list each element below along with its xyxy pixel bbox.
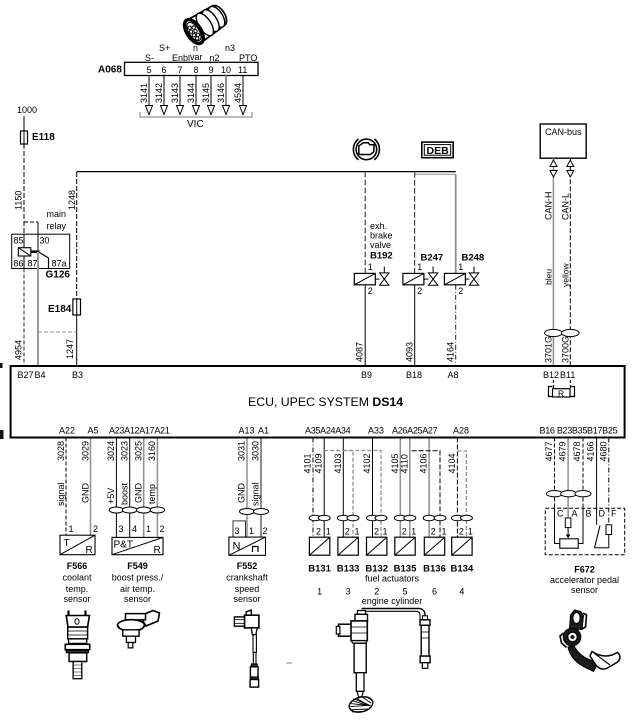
svg-text:86: 86: [14, 259, 24, 269]
svg-text:P&T: P&T: [114, 540, 133, 551]
svg-text:F549: F549: [127, 561, 148, 571]
svg-text:PTO: PTO: [239, 53, 257, 63]
svg-text:3024: 3024: [106, 441, 116, 461]
svg-text:6: 6: [162, 65, 167, 75]
svg-text:87: 87: [28, 259, 38, 269]
svg-text:signal: signal: [56, 482, 66, 506]
svg-text:2: 2: [263, 526, 268, 536]
svg-text:S-: S-: [145, 53, 154, 63]
svg-text:1: 1: [146, 524, 151, 534]
svg-text:boost press./: boost press./: [112, 573, 164, 583]
svg-text:A1: A1: [258, 426, 269, 436]
svg-text:A13: A13: [239, 426, 255, 436]
svg-text:B16 B23B35B17B25: B16 B23B35B17B25: [540, 426, 618, 436]
svg-text:Enbl: Enbl: [172, 53, 190, 63]
svg-text:1: 1: [411, 527, 416, 537]
svg-text:4: 4: [132, 524, 137, 534]
svg-text:5: 5: [147, 65, 152, 75]
svg-text:coolant: coolant: [62, 573, 92, 583]
svg-text:GND: GND: [134, 483, 144, 504]
svg-text:A26A25A27: A26A25A27: [392, 426, 438, 436]
svg-text:4101: 4101: [303, 453, 313, 473]
svg-text:CAN-L: CAN-L: [561, 193, 571, 220]
svg-text:crankshaft: crankshaft: [226, 573, 268, 583]
svg-text:B11: B11: [560, 370, 575, 380]
svg-text:temp.: temp.: [66, 584, 89, 594]
svg-text:2: 2: [93, 524, 98, 534]
svg-text:1: 1: [468, 527, 473, 537]
svg-text:1: 1: [368, 262, 373, 272]
svg-text:4102: 4102: [362, 453, 372, 473]
svg-text:relay: relay: [47, 221, 67, 231]
svg-text:30: 30: [40, 236, 50, 246]
svg-text:3023: 3023: [120, 441, 130, 461]
svg-text:4109: 4109: [314, 453, 324, 473]
svg-text:3025: 3025: [134, 441, 144, 461]
svg-text:4: 4: [459, 587, 464, 597]
svg-text:A5: A5: [88, 426, 99, 436]
svg-text:2: 2: [459, 527, 464, 537]
svg-text:1000: 1000: [17, 105, 37, 115]
svg-text:engine cylinder: engine cylinder: [362, 596, 423, 606]
svg-text:4106: 4106: [419, 453, 429, 473]
svg-text:3031: 3031: [237, 441, 247, 461]
svg-text:1247: 1247: [65, 339, 75, 359]
svg-text:3143: 3143: [170, 83, 180, 103]
svg-text:B133: B133: [337, 564, 360, 575]
svg-text:R: R: [86, 545, 93, 556]
svg-text:2: 2: [368, 286, 373, 296]
svg-text:2: 2: [374, 527, 379, 537]
svg-text:A28: A28: [453, 426, 469, 436]
svg-text:fuel actuators: fuel actuators: [365, 574, 420, 584]
svg-text:speed: speed: [235, 584, 260, 594]
svg-text:10: 10: [221, 65, 231, 75]
svg-text:3141: 3141: [139, 83, 149, 103]
svg-text:CAN-bus: CAN-bus: [545, 127, 582, 137]
svg-text:G126: G126: [46, 270, 71, 281]
svg-text:1: 1: [355, 527, 360, 537]
svg-text:A: A: [572, 509, 578, 519]
svg-text:accelerator pedal: accelerator pedal: [550, 575, 619, 585]
svg-text:1: 1: [326, 527, 331, 537]
svg-text:3142: 3142: [154, 83, 164, 103]
svg-text:3146: 3146: [216, 83, 226, 103]
svg-text:1: 1: [383, 527, 388, 537]
svg-text:85: 85: [14, 236, 24, 246]
svg-text:A33: A33: [368, 426, 384, 436]
svg-text:B4: B4: [35, 370, 46, 380]
svg-text:B131: B131: [308, 564, 331, 575]
svg-text:4680: 4680: [598, 441, 608, 461]
svg-text:sensor: sensor: [233, 594, 260, 604]
svg-text:4954: 4954: [14, 340, 24, 360]
svg-text:3: 3: [235, 526, 240, 536]
svg-text:A23A12A17A21: A23A12A17A21: [109, 426, 170, 436]
svg-text:GND: GND: [81, 483, 91, 504]
svg-text:A35A24A34: A35A24A34: [305, 426, 351, 436]
svg-text:B: B: [586, 509, 592, 519]
svg-text:2: 2: [374, 587, 379, 597]
svg-text:valve: valve: [370, 240, 391, 250]
svg-text:main: main: [47, 209, 67, 219]
svg-text:ECU, UPEC SYSTEM DS14: ECU, UPEC SYSTEM DS14: [248, 395, 403, 409]
svg-text:R: R: [558, 388, 564, 398]
svg-text:E184: E184: [48, 304, 72, 315]
svg-text:4104: 4104: [447, 453, 457, 473]
svg-text:11: 11: [238, 65, 247, 75]
svg-text:var: var: [190, 52, 203, 62]
svg-text:bleu: bleu: [544, 269, 554, 285]
svg-text:3: 3: [346, 587, 351, 597]
svg-text:2: 2: [160, 524, 165, 534]
svg-text:4105: 4105: [390, 453, 400, 473]
svg-text:B192: B192: [370, 250, 393, 261]
svg-text:5: 5: [402, 587, 407, 597]
svg-text:3: 3: [119, 524, 124, 534]
svg-text:4103: 4103: [333, 453, 343, 473]
svg-text:E118: E118: [32, 132, 55, 143]
svg-text:GND: GND: [237, 483, 247, 504]
svg-text:3030: 3030: [251, 441, 261, 461]
svg-text:4677: 4677: [544, 441, 554, 461]
svg-text:exh.: exh.: [370, 221, 387, 231]
svg-text:S+: S+: [159, 43, 170, 53]
svg-text:3028: 3028: [56, 441, 66, 461]
svg-text:+5V: +5V: [106, 488, 116, 504]
svg-text:3144: 3144: [186, 83, 196, 103]
svg-text:3700G: 3700G: [561, 336, 571, 363]
svg-text:B3: B3: [72, 370, 83, 380]
svg-text:1150: 1150: [14, 191, 24, 210]
svg-text:B247: B247: [421, 253, 444, 264]
svg-text:1: 1: [442, 527, 447, 537]
svg-text:N: N: [233, 541, 241, 553]
svg-text:C: C: [557, 509, 564, 519]
svg-text:n2: n2: [210, 53, 220, 63]
svg-text:4678: 4678: [572, 441, 582, 461]
svg-text:4093: 4093: [405, 342, 415, 362]
svg-text:CAN-H: CAN-H: [544, 192, 554, 221]
svg-text:4110: 4110: [399, 454, 409, 473]
svg-text:signal: signal: [251, 482, 261, 506]
svg-text:4166: 4166: [586, 441, 596, 461]
svg-text:D: D: [599, 509, 606, 519]
svg-text:VIC: VIC: [187, 119, 204, 130]
svg-text:1: 1: [69, 524, 74, 534]
svg-text:F552: F552: [237, 561, 258, 571]
svg-text:2: 2: [316, 527, 321, 537]
svg-text:T: T: [64, 538, 70, 549]
svg-text:DEB: DEB: [427, 145, 450, 157]
svg-text:temp: temp: [147, 484, 157, 504]
svg-text:3160: 3160: [147, 441, 157, 461]
svg-text:1: 1: [249, 526, 254, 536]
svg-text:2: 2: [417, 286, 422, 296]
svg-text:air temp.: air temp.: [120, 584, 155, 594]
svg-text:yellow: yellow: [561, 263, 571, 287]
svg-text:B136: B136: [423, 564, 446, 575]
svg-text:B248: B248: [462, 253, 485, 264]
svg-text:F566: F566: [67, 561, 88, 571]
svg-text:3701G: 3701G: [544, 336, 554, 363]
svg-text:3029: 3029: [81, 441, 91, 461]
svg-text:7: 7: [178, 65, 183, 75]
svg-text:R: R: [154, 545, 161, 556]
svg-text:B18: B18: [406, 370, 422, 380]
svg-text:2: 2: [458, 286, 463, 296]
svg-text:F: F: [611, 509, 617, 519]
svg-text:boost: boost: [120, 482, 130, 505]
svg-text:87a: 87a: [52, 259, 67, 269]
svg-text:9: 9: [209, 65, 214, 75]
svg-text:4594: 4594: [233, 83, 243, 103]
svg-text:4679: 4679: [558, 441, 568, 461]
svg-text:1248: 1248: [67, 190, 77, 210]
svg-text:B12: B12: [543, 370, 559, 380]
svg-text:2: 2: [431, 527, 436, 537]
svg-text:n3: n3: [225, 43, 235, 53]
svg-text:1: 1: [317, 587, 322, 597]
svg-text:sensor: sensor: [63, 594, 90, 604]
svg-text:2: 2: [402, 527, 407, 537]
svg-text:sensor: sensor: [571, 585, 598, 595]
svg-text:B9: B9: [361, 370, 372, 380]
svg-text:A068: A068: [98, 65, 122, 76]
svg-text:A8: A8: [448, 370, 459, 380]
svg-text:sensor: sensor: [124, 594, 151, 604]
svg-text:2: 2: [345, 527, 350, 537]
svg-text:F672: F672: [574, 565, 595, 575]
svg-text:B27: B27: [18, 370, 34, 380]
svg-text:4087: 4087: [355, 342, 365, 362]
svg-text:A22: A22: [59, 426, 75, 436]
svg-text:B134: B134: [451, 564, 474, 575]
svg-text:4164: 4164: [446, 342, 456, 362]
svg-text:6: 6: [432, 587, 437, 597]
svg-text:8: 8: [194, 65, 199, 75]
svg-text:3145: 3145: [201, 83, 211, 103]
